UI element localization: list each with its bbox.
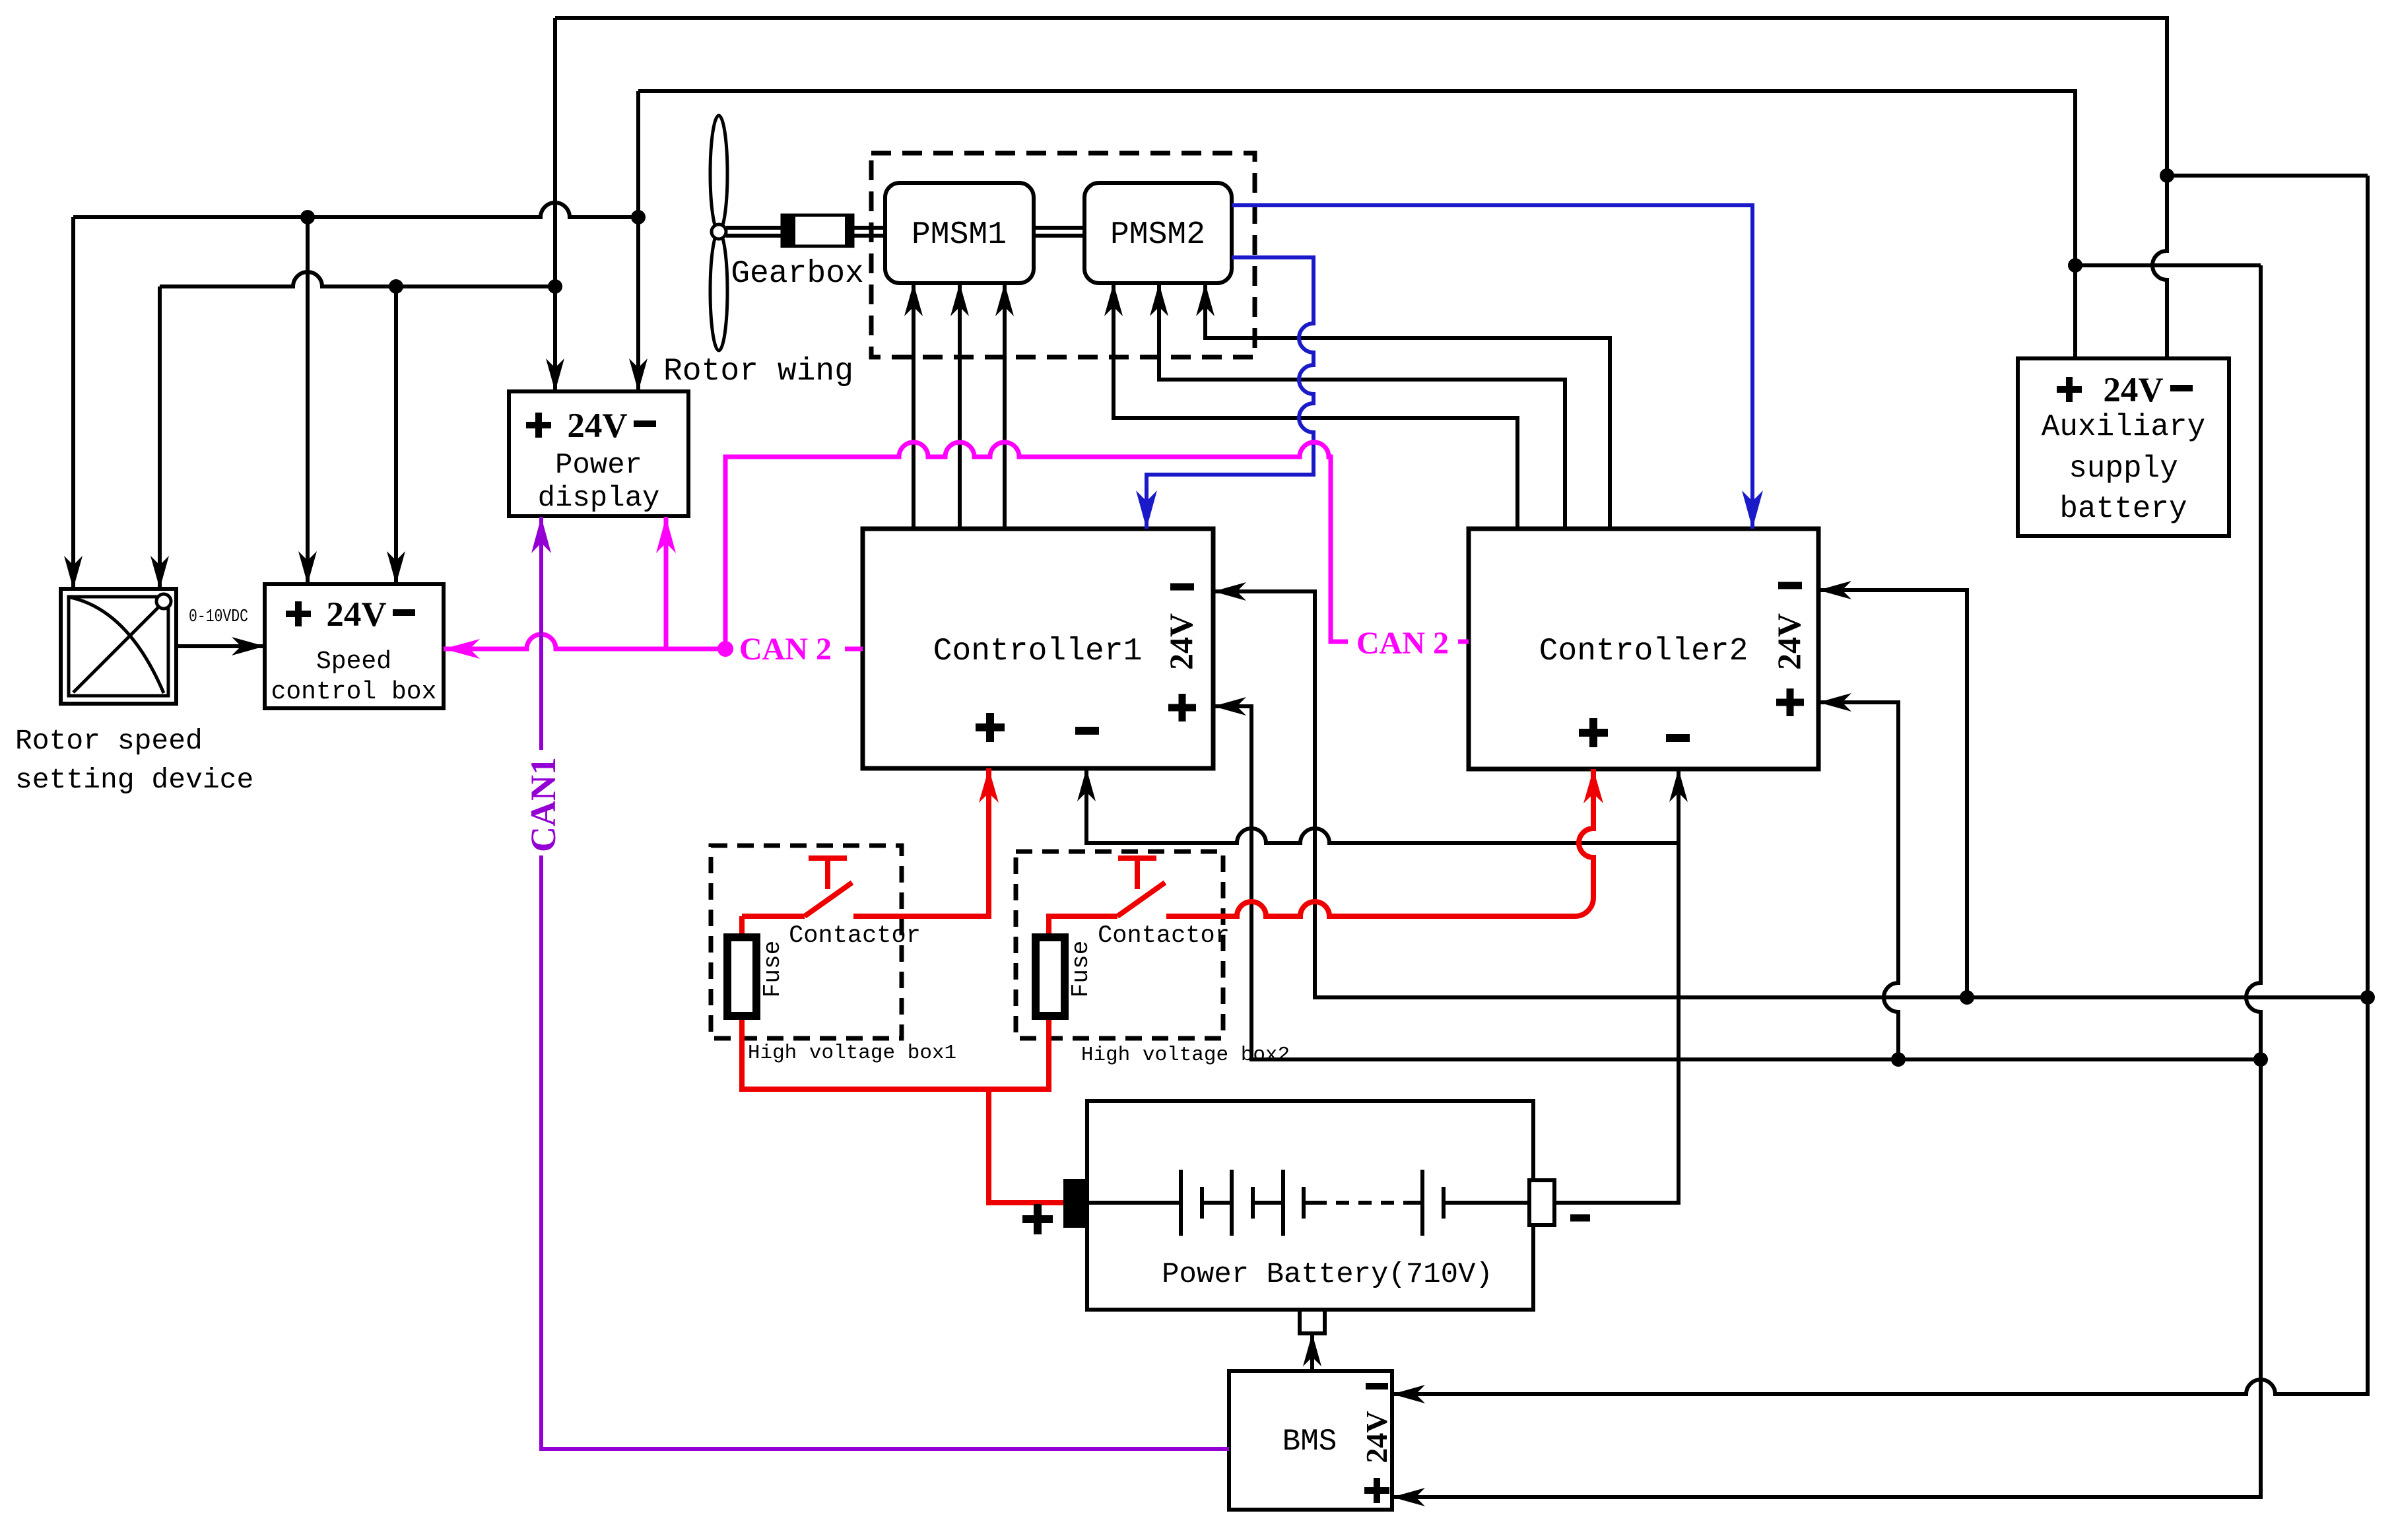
svg-text:CAN 2: CAN 2 xyxy=(1356,626,1449,661)
svg-text:setting device: setting device xyxy=(15,764,253,796)
svg-text:supply: supply xyxy=(2069,452,2178,486)
svg-text:CAN 2: CAN 2 xyxy=(739,632,832,667)
svg-text:Fuse: Fuse xyxy=(1067,941,1094,997)
svg-text:Rotor wing: Rotor wing xyxy=(663,354,853,389)
svg-text:High voltage box1: High voltage box1 xyxy=(748,1042,956,1065)
svg-text:Fuse: Fuse xyxy=(759,941,786,997)
svg-text:Speed: Speed xyxy=(316,648,391,676)
svg-text:battery: battery xyxy=(2059,492,2187,526)
svg-text:Rotor speed: Rotor speed xyxy=(15,725,203,757)
svg-text:display: display xyxy=(538,482,660,515)
svg-text:Power: Power xyxy=(555,449,642,482)
svg-text:24V: 24V xyxy=(1770,613,1807,670)
svg-text:PMSM2: PMSM2 xyxy=(1110,217,1205,253)
svg-text:24V: 24V xyxy=(1162,613,1199,670)
svg-text:PMSM1: PMSM1 xyxy=(912,217,1007,253)
svg-text:0-10VDC: 0-10VDC xyxy=(189,607,248,627)
svg-text:Controller1: Controller1 xyxy=(933,634,1143,669)
svg-text:Power Battery(710V): Power Battery(710V) xyxy=(1162,1258,1493,1291)
svg-text:CAN1: CAN1 xyxy=(523,757,563,852)
svg-text:24V: 24V xyxy=(1360,1411,1393,1463)
svg-text:Controller2: Controller2 xyxy=(1539,634,1748,669)
svg-text:Auxiliary: Auxiliary xyxy=(2042,410,2205,444)
svg-text:control box: control box xyxy=(271,678,437,706)
svg-text:BMS: BMS xyxy=(1282,1424,1337,1459)
svg-text:High voltage box2: High voltage box2 xyxy=(1081,1044,1290,1067)
svg-text:24V: 24V xyxy=(2103,371,2163,409)
svg-text:24V: 24V xyxy=(326,595,386,634)
svg-text:Gearbox: Gearbox xyxy=(731,256,864,292)
svg-text:24V: 24V xyxy=(567,407,627,445)
svg-text:Contactor: Contactor xyxy=(1098,922,1230,950)
svg-text:Contactor: Contactor xyxy=(789,922,921,950)
